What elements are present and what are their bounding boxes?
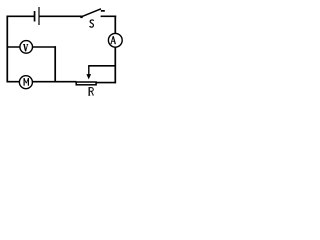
label S bbox=[90, 20, 94, 27]
voltmeter V circle bbox=[20, 41, 33, 54]
motor M circle bbox=[19, 76, 32, 89]
rheostat R box bbox=[76, 82, 96, 85]
motor letter M bbox=[24, 78, 28, 86]
rheostat wiper arrow shaft bbox=[88, 66, 90, 76]
switch S right contact bar bbox=[101, 10, 105, 12]
wire voltmeter branch horizontal bbox=[7, 46, 56, 48]
ammeter A circle bbox=[108, 33, 122, 47]
wire from rheostat right end to right vertical bbox=[96, 82, 116, 84]
wire top from left corner to battery bbox=[7, 15, 34, 17]
wire from wiper arrow to right vertical bbox=[88, 65, 116, 67]
ammeter letter A bbox=[111, 36, 116, 44]
switch S left pivot nub bbox=[80, 16, 82, 18]
battery B short thick plate (negative) bbox=[34, 11, 36, 22]
battery B long thin plate (positive) bbox=[38, 7, 39, 25]
rheostat wiper arrow head bbox=[86, 74, 91, 79]
voltmeter letter V bbox=[23, 44, 28, 51]
wire left vertical bbox=[6, 16, 8, 83]
wire bottom (through motor) bbox=[7, 81, 77, 83]
wire top from battery to switch left contact bbox=[39, 15, 82, 17]
wire right vertical (through ammeter) bbox=[114, 16, 116, 84]
switch S blade (open, tilted up) bbox=[80, 9, 101, 17]
wire top-right from switch to right corner bbox=[101, 15, 117, 17]
label R bbox=[88, 87, 93, 95]
wire voltmeter branch vertical down to bottom wire bbox=[54, 46, 56, 82]
